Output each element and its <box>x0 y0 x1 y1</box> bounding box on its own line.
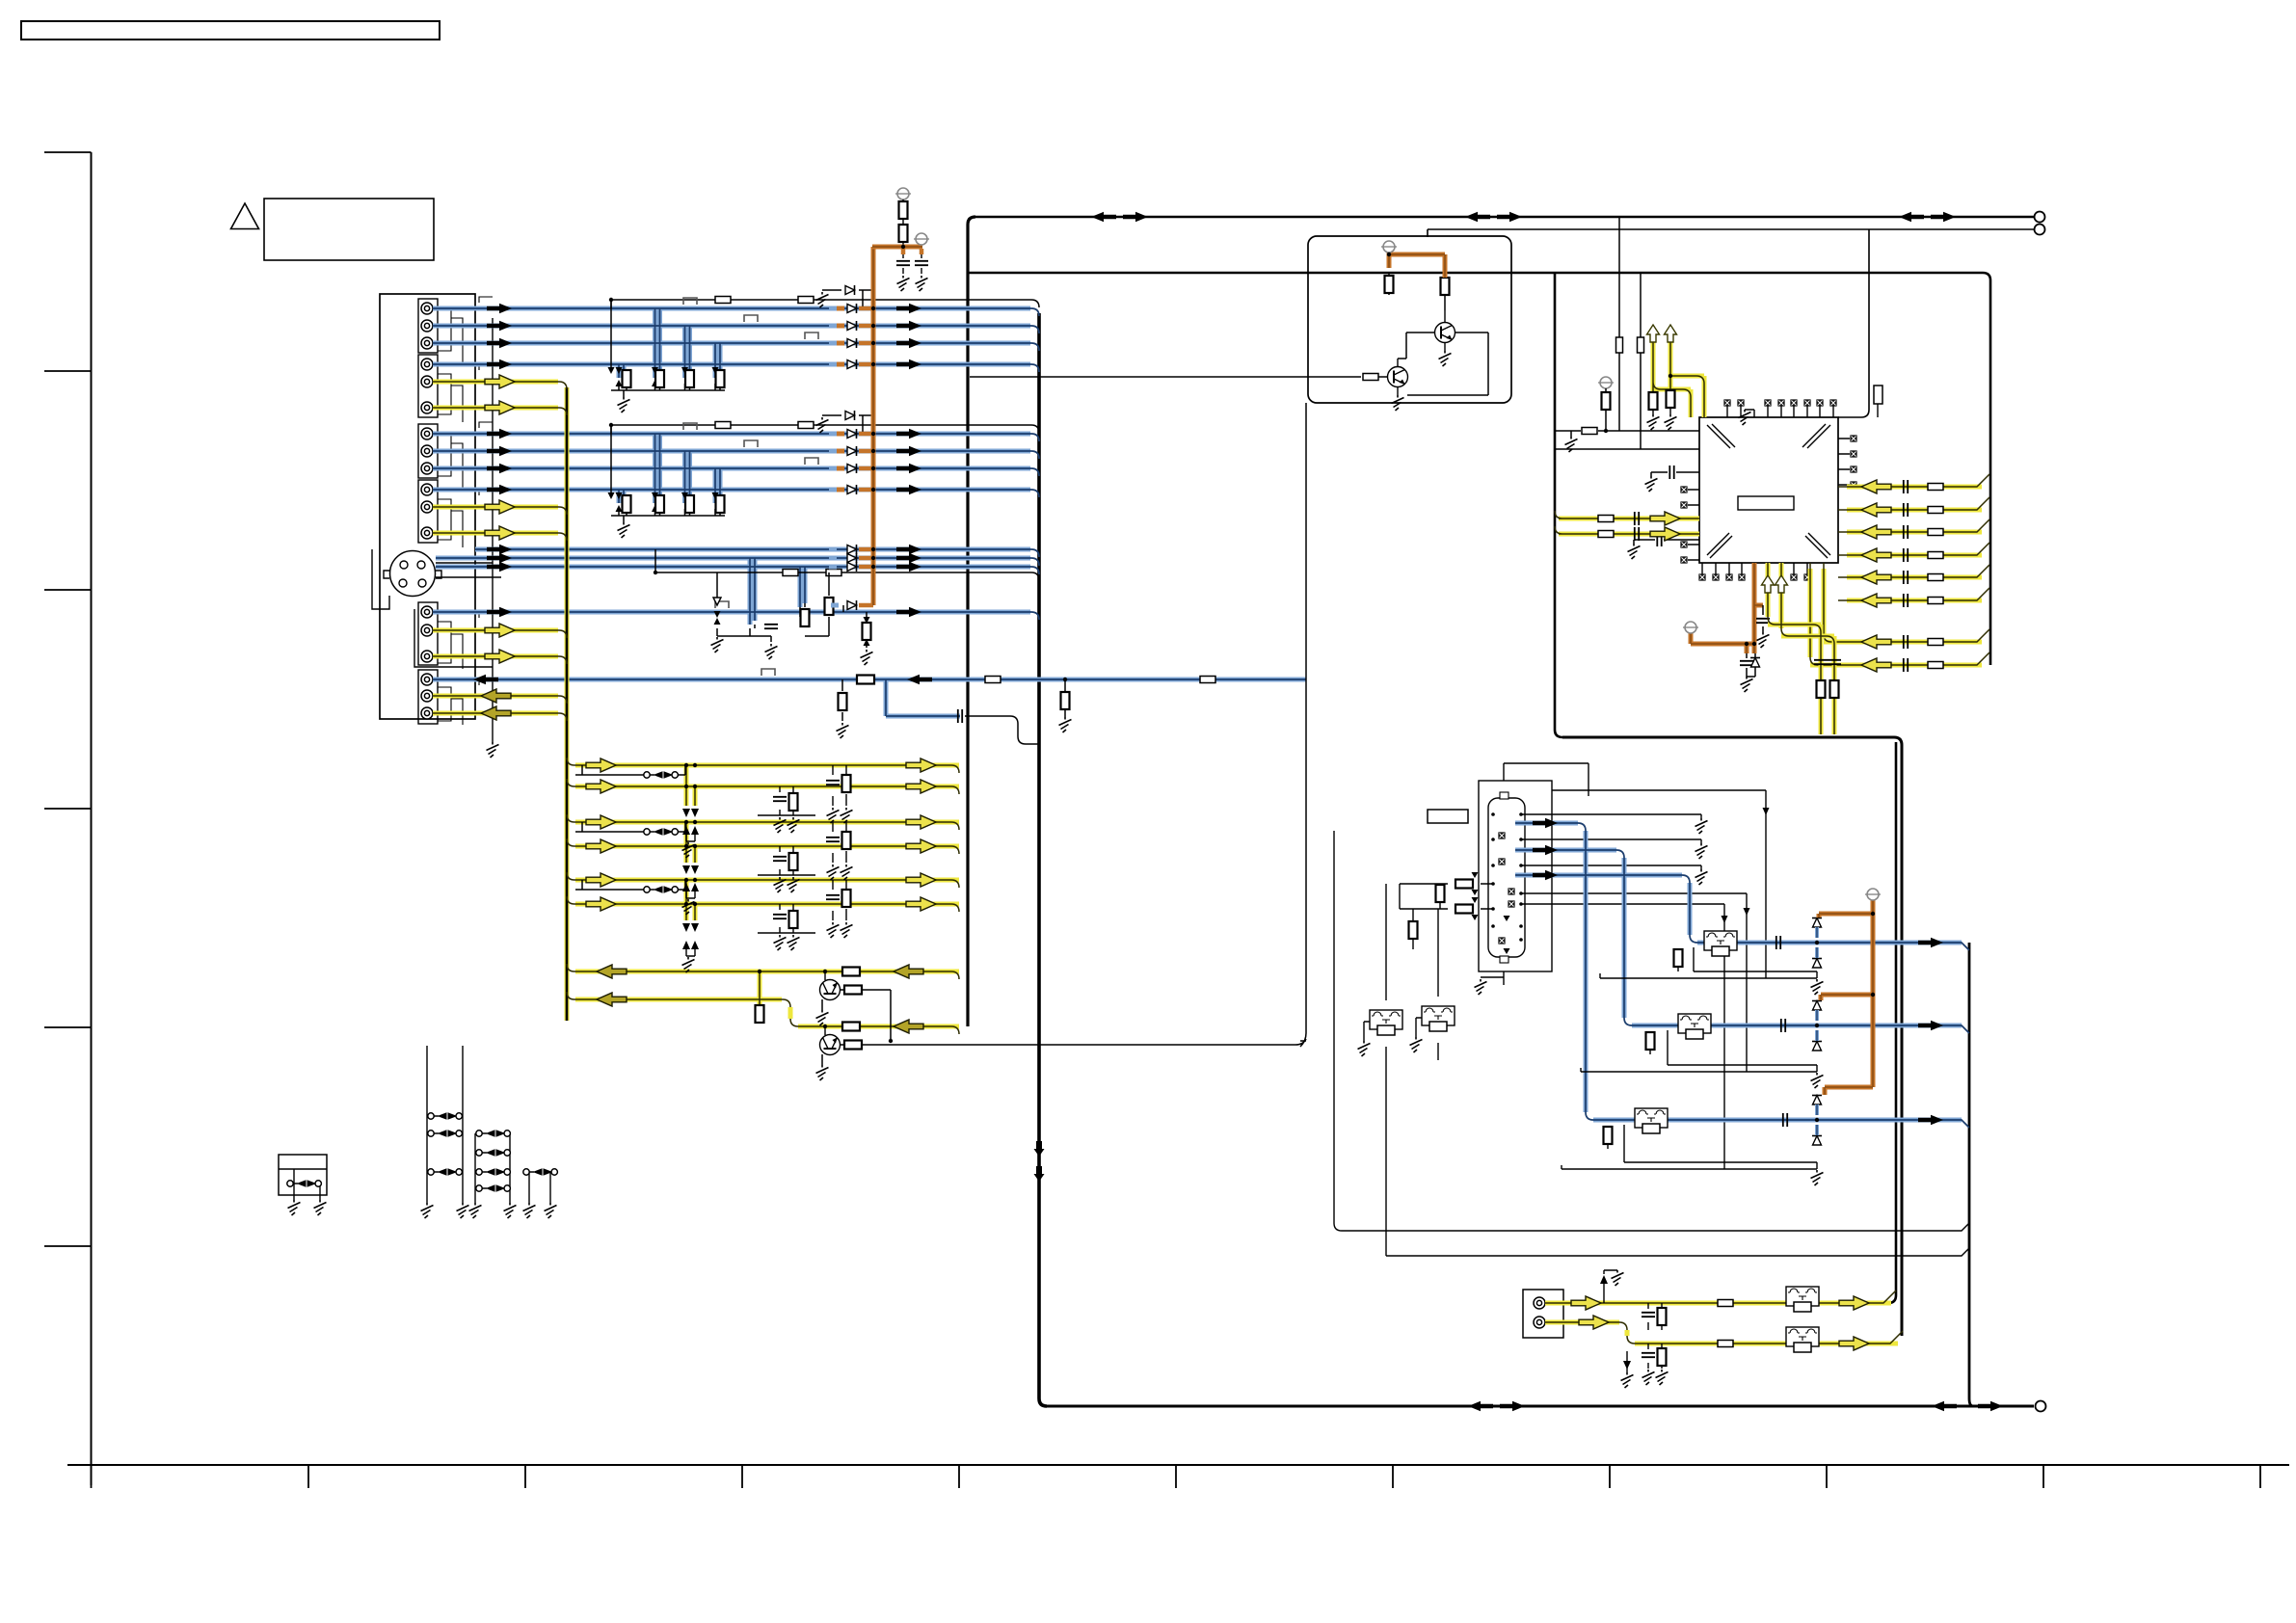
orange supply in Q box <box>1389 253 1445 278</box>
orange branch below IC <box>1691 563 1763 653</box>
RCA jack E3 <box>421 651 433 662</box>
yellow zigzag above IC <box>1653 328 1704 417</box>
RCA jack F3 <box>421 707 433 719</box>
resistor R101 <box>715 297 731 304</box>
wire: group1 sync line <box>611 300 1039 308</box>
ferrite filter FB1 <box>1704 931 1737 956</box>
RCA jack B3 <box>421 402 433 413</box>
jumper ladder 3 <box>529 1172 550 1203</box>
entry arrows on jack rows <box>479 297 493 685</box>
per-pair downarrow stubs + grounds <box>682 809 700 858</box>
decoupling cap left of IC <box>1651 472 1699 476</box>
junction dots lower audio <box>823 970 827 973</box>
node: IC reset terminal <box>1598 377 1614 388</box>
ferrite filter FB5 <box>1422 1006 1455 1031</box>
thin verticals to FB pair and bottom thin rows <box>1334 831 1969 1256</box>
node: 5V supply terminal <box>1865 889 1881 900</box>
node: top right terminal 2 <box>2035 225 2045 235</box>
jumper ladder 1 <box>427 1046 463 1203</box>
note box <box>264 199 434 260</box>
flow arrows on bottom bus <box>1468 1401 1493 1411</box>
RCA jack B2 <box>421 376 433 387</box>
input line from bus to Q box <box>970 376 1361 378</box>
jack group frame C <box>418 424 438 478</box>
RCA jack D3 <box>421 527 433 539</box>
RCA jack C2 <box>421 445 433 457</box>
QFP bottom pins <box>1702 563 1807 574</box>
jack group frame B <box>418 355 438 417</box>
QFP right pins <box>1838 439 1850 485</box>
thin ground rows from D-sub <box>1521 814 1701 869</box>
transistor Q1 audio mute <box>820 980 841 1000</box>
wire: orange power bus <box>871 247 876 605</box>
wire: vertical blue-signal bus x=1078 <box>1039 313 1047 1406</box>
ground under panel <box>487 742 499 758</box>
RCA jack E2 <box>421 625 433 636</box>
clamp diode groups at bus <box>816 285 874 307</box>
yellow bundle right of IC <box>1810 487 1982 665</box>
lower audio output circuitry: resistors <box>842 968 860 976</box>
frame tick marks bottom <box>92 1465 2261 1488</box>
staple components on rows <box>683 298 818 339</box>
source flow arrows after panel <box>487 304 512 313</box>
warning triangle <box>231 203 259 229</box>
transistor Q2 audio mute <box>820 1035 841 1055</box>
orange power staircase right <box>1819 900 1873 1095</box>
RCA jack E1 <box>421 606 433 618</box>
RCA jack F1 <box>421 674 433 685</box>
jack group frame F <box>418 670 438 724</box>
node: top right terminal 1 <box>2035 212 2045 223</box>
composite row resistor to ground <box>866 612 868 648</box>
wire: right section left edge x=1613 <box>1555 273 1562 737</box>
yellow row arrows <box>586 758 616 772</box>
page frame bottom border <box>67 1464 2289 1466</box>
ferrite filter FB3 <box>1635 1108 1668 1133</box>
wire: audio bus x=588 <box>565 387 570 1021</box>
jumper ladder 2 <box>475 1133 510 1203</box>
RC cluster S-video rows <box>717 572 829 642</box>
wire: bottom horizontal bus y=1459 <box>1047 1405 2034 1408</box>
page frame left border <box>91 152 93 1485</box>
decoupling cap bottom-left of IC <box>1634 540 1699 544</box>
bottom connector filter parts <box>1604 1270 1662 1369</box>
diode pairs at orange injection points <box>1812 918 1822 928</box>
node: sync supply terminal <box>1381 241 1397 253</box>
mux diodes with orange stubs <box>835 308 844 490</box>
node: 9V supply terminal <box>895 188 911 200</box>
QFP top pins <box>1727 406 1833 417</box>
yellow input pair into IC left <box>1559 519 1699 534</box>
wire: top horizontal bus y=225 <box>975 216 2034 219</box>
RCA jack D1 <box>421 484 433 495</box>
yellow pair below IC down to audio-out bus <box>1768 563 1834 734</box>
ferrite filter FB6 <box>1786 1287 1819 1312</box>
jumper option box <box>279 1155 327 1195</box>
transistor Q4 sync <box>1435 323 1455 343</box>
RCA jack A3 <box>421 337 433 349</box>
wire: s-video sync line <box>655 549 1039 580</box>
left resistor networks <box>1400 884 1493 909</box>
wire: group2 sync line <box>611 425 1039 434</box>
QFP left pins <box>1688 490 1699 560</box>
switch S2 <box>644 829 679 835</box>
wire: blue rows right bus x=2043 <box>1969 943 1973 1406</box>
RCA jack A1 <box>421 303 433 314</box>
switch S1 <box>644 772 679 778</box>
RCA jack C1 <box>421 428 433 439</box>
connector audio monitor out <box>1523 1290 1563 1338</box>
wire: audio rows from jacks <box>433 382 558 713</box>
jack group frame E <box>418 602 438 665</box>
resistor R201 <box>715 422 731 429</box>
RC termination cluster group1 <box>611 300 725 397</box>
RCA jack B1 <box>421 359 433 370</box>
row705 components <box>841 679 843 721</box>
ferrite filter FB2 <box>1678 1014 1711 1039</box>
frame tick marks left <box>44 152 92 1246</box>
ferrite filter FB4 <box>1370 1010 1402 1035</box>
node: 3.3V supply terminal <box>1683 622 1698 633</box>
flow arrow pairs on top bus <box>1091 212 1116 222</box>
connector D-sub component input <box>1488 798 1525 957</box>
node: bottom right terminal <box>2036 1401 2046 1412</box>
wire: audio section rows <box>575 765 959 1026</box>
blue rows casing <box>433 308 1306 716</box>
RCA jack F2 <box>421 690 433 702</box>
title block box top-left <box>21 21 440 40</box>
wire: right section top edge y=283 <box>968 273 1990 665</box>
jack group frame D <box>418 480 438 543</box>
wire: second top line y=238 <box>1428 229 2034 237</box>
RCA jack D2 <box>421 501 433 513</box>
S-video connector <box>390 551 436 597</box>
thin rows with switches <box>575 765 685 890</box>
ferrite filter FB7 <box>1786 1327 1819 1352</box>
RCA jack A2 <box>421 320 433 332</box>
label box <box>1428 810 1468 823</box>
wire: vertical riser x=1967 bottom connector row1 <box>1888 742 1896 1303</box>
IC U1 video switch QFP <box>1699 417 1838 563</box>
vertical from Q-box down to audio line <box>1300 403 1306 1047</box>
flow arrows on blue bus x=1078 <box>1034 1141 1045 1157</box>
flow arrows before bus <box>896 304 921 313</box>
per-pair cap/res clusters <box>758 786 815 833</box>
transistor Q3 sync <box>1388 367 1408 387</box>
jack group frame A <box>418 299 438 353</box>
D-sub pins <box>1491 812 1523 942</box>
verticals from top bus lines down to IC <box>1619 217 1641 449</box>
switch S3 <box>644 887 679 892</box>
connector panel outline <box>380 294 475 719</box>
D-sub bracket <box>1479 781 1552 971</box>
blue rows core <box>433 308 1306 716</box>
wire: vertical yellow-signal bus x=1004 <box>968 217 975 1026</box>
RC termination cluster group2 <box>611 425 725 522</box>
blue staircase rows from D-sub <box>1515 823 1962 1120</box>
D-sub top link to ground web <box>1521 790 1766 1169</box>
panel shield ground bus <box>433 308 501 742</box>
wire: vertical x=1939 from line y238 to IC corner <box>1838 229 1869 417</box>
wire: right section bottom edge y=765 <box>1562 737 1902 1336</box>
junction dots at orange bus <box>609 298 875 574</box>
RCA jack C3 <box>421 463 433 474</box>
